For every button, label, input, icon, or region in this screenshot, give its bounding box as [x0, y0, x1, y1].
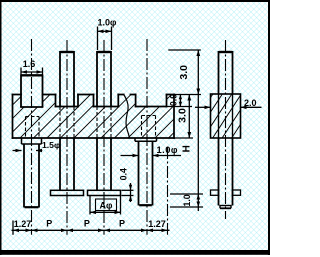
extension line body bottom plane: [174, 137, 193, 139]
dim A-phi extension lines: [89, 196, 91, 215]
body top segment 4: [118, 94, 123, 96]
center line pin 4: [146, 39, 148, 235]
right pin tail: [219, 138, 233, 206]
page frame top: [0, 0, 270, 2]
dim A-phi box: [96, 199, 117, 211]
pin 2 (1.0) upper: [60, 51, 74, 107]
center line pin 3: [103, 40, 105, 235]
dim 1.6 arrows: [21, 70, 27, 74]
pin 1 hidden hole (dashed): [26, 117, 40, 138]
pin 2 bottom bar: [51, 190, 84, 195]
page frame right: [268, 0, 270, 255]
dim 1.0 right extension lines: [170, 193, 203, 195]
center line pin 2: [66, 40, 68, 235]
recess floor pin1: [21, 106, 43, 108]
recess wall pin2 left: [55, 95, 57, 107]
pin 3 hidden in body (dashed): [97, 107, 111, 138]
pin 4 tail: [139, 141, 153, 205]
bottom arrows at 31.5: [26, 229, 32, 233]
pin 2 hidden in body (dashed): [60, 107, 74, 138]
right pin collar right tab: [233, 190, 241, 195]
bottom extension tick body left edge: [12, 221, 14, 235]
page frame left: [0, 0, 2, 255]
dim 0.4 extension lines: [122, 189, 134, 191]
dim 1.5-phi leader right: [36, 150, 42, 152]
body top segment 1: [13, 94, 22, 96]
right pin tip: [220, 206, 232, 209]
recess floor pin2: [56, 106, 79, 108]
body right edge: [173, 95, 175, 139]
dim 0.4 line: [130, 183, 132, 202]
center line pin 1: [31, 39, 33, 235]
pin 4 hidden hole (dashed): [142, 116, 156, 138]
dim 0.9 line: [179, 95, 181, 107]
svg-text:1.0φ: 1.0φ: [98, 18, 118, 28]
bottom dimension line: [12, 229, 170, 231]
svg-text:1.0φ: 1.0φ: [157, 145, 179, 155]
recess wall pin3 left: [93, 95, 95, 107]
svg-text:H: H: [182, 145, 193, 152]
svg-text:P: P: [84, 218, 90, 228]
right pin body block: [184, 93, 271, 139]
dim 3.0 upper line: [197, 50, 199, 211]
break line S-curve: [124, 95, 130, 139]
right pin collar left tab: [211, 190, 219, 195]
body top segment 3: [78, 94, 94, 96]
svg-text:1.27: 1.27: [14, 219, 32, 229]
bottom arrows at 104: [98, 229, 104, 233]
svg-text:1.5φ: 1.5φ: [42, 140, 60, 150]
svg-text:3.0: 3.0: [178, 65, 190, 80]
dim 2.0 leader right: [241, 106, 262, 108]
svg-text:1.0: 1.0: [182, 194, 192, 206]
recess wall pin4 left: [135, 95, 137, 107]
recess wall pin3 right: [117, 95, 119, 107]
pin 3 (1.0) upper: [97, 51, 111, 107]
bottom arrows at 13: [13, 229, 19, 233]
center line right pin: [225, 40, 227, 219]
page frame bottom band: [0, 250, 270, 255]
dim 1.5-phi leader left: [13, 150, 22, 152]
body bottom: [13, 137, 175, 139]
svg-text:P: P: [46, 218, 52, 228]
svg-text:Aφ: Aφ: [100, 200, 113, 210]
dim 1.0-phi top extension lines: [98, 27, 112, 51]
bottom arrows at 167.5: [162, 229, 168, 233]
bottom arrows at 67: [61, 229, 67, 233]
body top segment 6: [167, 94, 175, 96]
dim 3.0 lower line: [188, 95, 190, 139]
body left edge: [12, 95, 14, 139]
svg-text:0.4: 0.4: [118, 168, 128, 180]
phantom pitch center line: [167, 147, 169, 235]
extension line body top plane: [174, 94, 201, 96]
right pin upper: [219, 51, 233, 94]
svg-text:1.6: 1.6: [23, 59, 36, 69]
svg-text:3.0: 3.0: [177, 108, 189, 123]
pin 3 bottom bar: [88, 190, 121, 195]
hatch body left view: [0, 94, 213, 140]
body top segment 5: [131, 94, 136, 96]
svg-text:0.9: 0.9: [168, 94, 178, 106]
recess floor pin3: [94, 106, 119, 108]
body outline left view: [13, 95, 175, 139]
body top segment 2: [43, 94, 56, 96]
recess floor pin4: [136, 106, 167, 108]
dim 1.6 extension lines: [21, 68, 43, 75]
svg-text:2.0: 2.0: [244, 98, 257, 108]
pin 4 shoulder below body: [135, 138, 157, 141]
extension line recess floor plane: [167, 106, 193, 108]
extension line pin top plane: [168, 49, 201, 51]
pin 1 tail: [24, 144, 39, 208]
right pin through block: [219, 94, 233, 138]
dim 1.0-phi pin4 leader right: [153, 155, 182, 157]
recess wall pin4 right: [166, 95, 168, 107]
dim 1.0-phi top arrows: [98, 30, 104, 34]
bottom arrows at 145.7: [141, 229, 147, 233]
dim 2.0 leader left: [195, 106, 211, 108]
pin 3 tail: [97, 138, 111, 190]
pin 2 tail: [60, 138, 74, 190]
dim 1.0-phi pin4 leader left: [121, 155, 139, 157]
pin 1 (1.6 sq) upper: [21, 75, 43, 108]
pin 1 flange below body: [22, 138, 42, 144]
svg-text:P: P: [119, 218, 125, 228]
svg-text:1.27: 1.27: [148, 219, 166, 229]
recess wall pin2 right: [77, 95, 79, 107]
